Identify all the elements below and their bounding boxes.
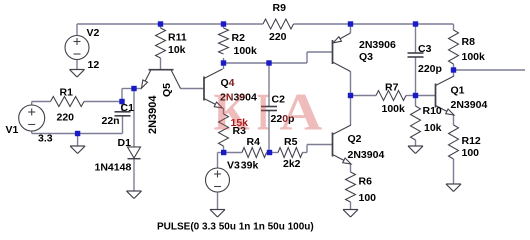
svg-text:V2: V2 [87, 27, 100, 39]
svg-text:2k2: 2k2 [283, 158, 301, 170]
svg-text:C1: C1 [121, 102, 135, 114]
svg-text:220: 220 [57, 112, 75, 124]
svg-text:I: I [257, 82, 270, 141]
svg-text:2N3904: 2N3904 [348, 149, 385, 161]
svg-text:2N3904: 2N3904 [451, 99, 488, 111]
svg-text:K: K [214, 83, 250, 141]
svg-text:220p: 220p [418, 63, 442, 75]
svg-text:R8: R8 [462, 36, 476, 48]
svg-text:Q3: Q3 [359, 51, 373, 63]
svg-text:D1: D1 [118, 137, 132, 149]
svg-text:12: 12 [88, 59, 100, 71]
svg-text:R9: R9 [273, 2, 287, 14]
svg-text:R10: R10 [423, 105, 442, 117]
svg-text:V3: V3 [227, 160, 240, 172]
svg-text:R12: R12 [462, 135, 481, 147]
svg-text:100k: 100k [462, 51, 486, 63]
svg-text:1N4148: 1N4148 [95, 162, 132, 174]
svg-text:100k: 100k [382, 103, 406, 115]
svg-text:R2: R2 [232, 32, 246, 44]
svg-text:2N3904: 2N3904 [147, 95, 159, 134]
svg-text:100k: 100k [234, 45, 258, 57]
svg-text:3.3: 3.3 [38, 133, 53, 145]
svg-text:R6: R6 [359, 176, 373, 188]
svg-text:39k: 39k [241, 160, 259, 172]
svg-text:220: 220 [269, 31, 287, 43]
svg-text:100: 100 [359, 192, 377, 204]
svg-text:R7: R7 [385, 82, 399, 94]
svg-text:Q2: Q2 [348, 133, 362, 145]
svg-text:22n: 22n [102, 115, 120, 127]
svg-text:Q5: Q5 [161, 83, 173, 97]
svg-text:C3: C3 [418, 43, 432, 55]
svg-text:PULSE(0 3.3 50u 1n 1n 50u 100u: PULSE(0 3.3 50u 1n 1n 50u 100u) [157, 222, 314, 233]
svg-text:10k: 10k [168, 44, 186, 56]
svg-text:10k: 10k [424, 122, 442, 134]
svg-text:R1: R1 [60, 87, 74, 99]
svg-text:Q1: Q1 [451, 85, 465, 97]
svg-text:V1: V1 [6, 124, 19, 136]
svg-text:100: 100 [462, 147, 480, 159]
svg-text:2N3906: 2N3906 [359, 39, 396, 51]
svg-text:R11: R11 [168, 32, 187, 44]
svg-text:A: A [280, 83, 323, 141]
